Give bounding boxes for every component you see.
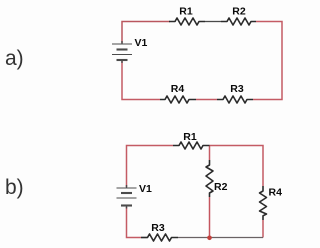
svg-text:R3: R3	[230, 83, 244, 95]
wire: circuit b bottom dark segment left of R3	[141, 237, 148, 239]
svg-text:R1: R1	[183, 131, 197, 143]
battery V1 (circuit b)	[117, 185, 137, 209]
svg-text:R2: R2	[232, 6, 246, 18]
svg-text:R4: R4	[171, 83, 185, 95]
resistor R2 (circuit b, middle vertical)	[206, 160, 213, 197]
resistor R1 (circuit b, top)	[173, 142, 210, 149]
svg-text:R4: R4	[269, 187, 283, 199]
node junction dot (circuit b, bottom middle)	[207, 236, 212, 241]
svg-text:R1: R1	[179, 6, 193, 18]
resistor R2 (circuit a, top)	[221, 18, 256, 25]
wire: circuit b right wire below R4 to bottom-right corner	[262, 220, 264, 238]
resistor R1 (circuit a, top)	[169, 18, 205, 25]
resistor R4 (circuit a, bottom)	[160, 96, 196, 103]
svg-text:V1: V1	[135, 37, 148, 49]
wire: circuit a bottom-left red segment and left wire below battery	[122, 61, 160, 100]
wire: circuit b bottom dark segment from R3 to right corner	[178, 237, 263, 239]
wire: circuit a bottom middle red segment between R4 and R3	[196, 99, 217, 101]
wire: circuit b middle branch red segment above R2	[209, 146, 211, 161]
battery V1 (circuit a)	[112, 41, 132, 63]
resistor R3 (circuit a, bottom)	[217, 96, 253, 103]
wire: circuit b top wire right of middle junction to top-right corner	[210, 146, 264, 187]
wire: circuit a top-left red segment	[122, 22, 170, 44]
wire: circuit a right side red (after R2 to bottom-right corner)	[253, 22, 282, 100]
resistor R3 (circuit b, bottom)	[141, 234, 178, 241]
svg-text:b): b)	[5, 176, 24, 199]
svg-text:V1: V1	[139, 183, 152, 195]
svg-text:a): a)	[5, 47, 24, 70]
wire: circuit b left wire below battery to bottom-left corner	[127, 207, 142, 238]
wire: circuit b left side red (top corner to battery)	[127, 146, 174, 188]
resistor R4 (circuit b, right vertical)	[260, 186, 267, 220]
svg-text:R2: R2	[214, 181, 228, 193]
wire: circuit b middle branch red segment below R2 down to junction	[209, 197, 211, 238]
wire: circuit a dark segment between R1 and R2	[205, 21, 221, 23]
svg-text:R3: R3	[151, 222, 165, 234]
